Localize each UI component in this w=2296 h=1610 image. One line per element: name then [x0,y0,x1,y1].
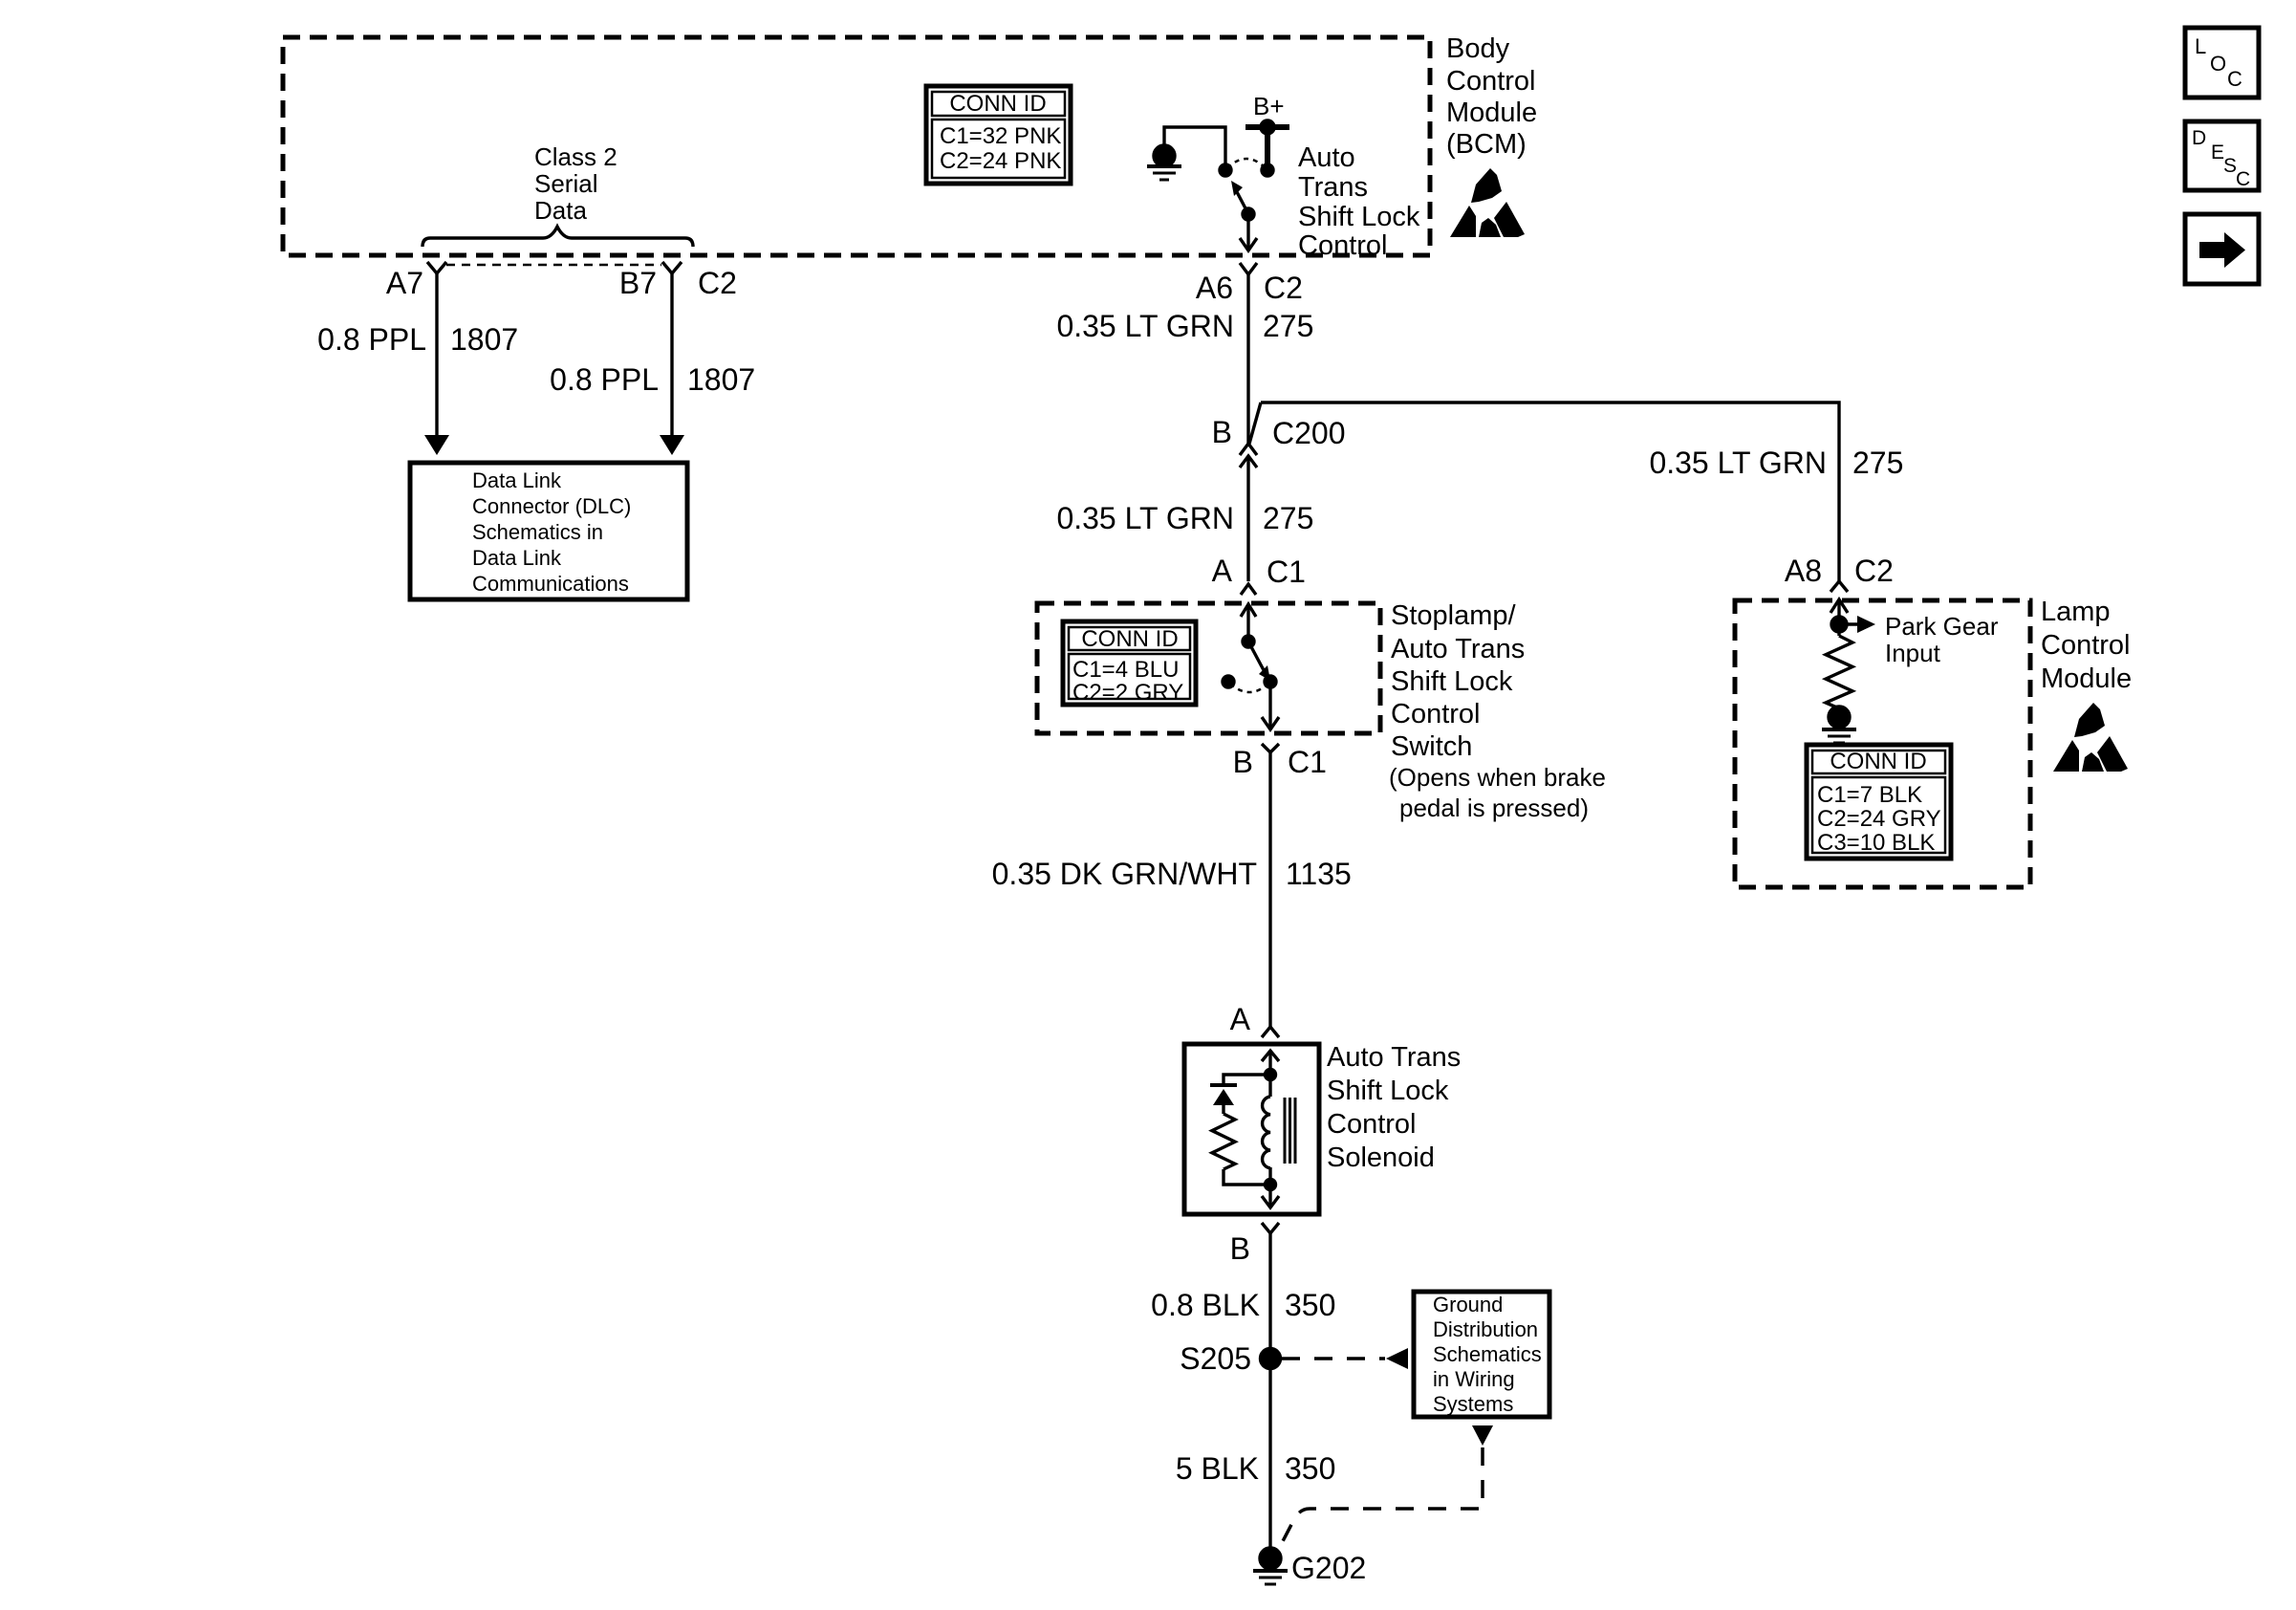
svg-text:O: O [2210,52,2226,76]
svg-text:(Opens when brake: (Opens when brake [1389,763,1606,792]
svg-text:Data Link: Data Link [472,546,562,570]
svg-text:0.35 LT GRN: 0.35 LT GRN [1649,446,1827,480]
svg-text:Ground: Ground [1433,1293,1503,1316]
svg-text:C3=10 BLK: C3=10 BLK [1817,830,1935,856]
label: Auto Trans Shift Lock Control (BCM switch) [1298,142,1420,261]
svg-text:Communications: Communications [472,572,629,596]
svg-text:Schematics: Schematics [1433,1342,1542,1366]
svg-text:1807: 1807 [450,322,518,357]
svg-text:Control: Control [2041,630,2131,661]
svg-text:E: E [2211,141,2224,163]
svg-text:C2=24 GRY: C2=24 GRY [1817,806,1941,832]
Body Control Module (BCM) dashed box [283,37,1430,255]
svg-text:A8: A8 [1785,554,1822,588]
svg-text:A6: A6 [1196,271,1233,305]
resistor (LCM internal) [1826,636,1852,708]
label: Class 2 Serial Data [534,142,617,225]
dashed reference: S205 to Ground Distribution box [1282,1348,1408,1369]
arrow button [2185,214,2259,284]
svg-text:Lamp: Lamp [2041,597,2111,627]
switch: Auto Trans Shift Lock Control (BCM internal) [1220,159,1273,250]
wire 0.8 BLK 350 [1151,1233,1335,1558]
connector A7 (BCM) [386,262,446,300]
ground (LCM internal) [1822,707,1856,743]
connector B7 / C2 (BCM) [619,262,737,300]
svg-text:0.8 PPL: 0.8 PPL [317,322,426,357]
svg-text:Class 2: Class 2 [534,142,617,171]
wire: BCM ground to switch contact [1164,127,1225,164]
svg-text:Control: Control [1446,66,1536,97]
Auto Trans Shift Lock Control Solenoid box [1184,1044,1319,1214]
connector B (below solenoid) [1230,1223,1279,1266]
svg-text:B7: B7 [619,266,657,300]
Lamp Control Module dashed box [1735,600,2030,887]
svg-text:D: D [2192,127,2206,149]
connector A6 / C2 [1196,263,1303,305]
svg-text:Auto Trans: Auto Trans [1391,634,1525,664]
dashed reference: box to G202 [1283,1425,1493,1541]
Data Link Connector (DLC) box [410,463,687,599]
svg-text:0.8 PPL: 0.8 PPL [550,362,659,397]
svg-text:0.35 DK GRN/WHT: 0.35 DK GRN/WHT [992,857,1257,891]
B+ terminal [1245,92,1289,167]
svg-text:C2: C2 [1264,271,1303,305]
svg-text:Shift Lock: Shift Lock [1391,666,1513,697]
svg-text:Shift Lock: Shift Lock [1327,1076,1449,1106]
svg-text:Serial: Serial [534,169,597,198]
svg-text:1135: 1135 [1286,857,1352,891]
LOC button [2185,28,2259,98]
svg-text:S: S [2223,155,2237,177]
brace under Class 2 Serial Data [422,227,693,247]
resistor (solenoid) [1212,1114,1235,1169]
connector A8 / C2 (LCM) [1785,554,1894,636]
svg-text:275: 275 [1263,501,1313,535]
connector A (solenoid) [1230,1002,1279,1037]
Stoplamp switch dashed box [1037,603,1380,733]
svg-text:Data: Data [534,196,587,225]
svg-text:Module: Module [2041,664,2132,694]
svg-text:Connector (DLC): Connector (DLC) [472,494,631,518]
label: Lamp Control Module [2041,597,2132,694]
svg-text:C1=32 PNK: C1=32 PNK [940,123,1061,149]
svg-text:Switch: Switch [1391,731,1472,762]
CONN ID box (LCM) [1807,745,1951,859]
diode (solenoid) [1210,1085,1237,1114]
svg-text:C2: C2 [698,266,737,300]
label: Body Control Module (BCM) [1446,33,1537,160]
svg-text:C1=4 BLU: C1=4 BLU [1072,657,1179,683]
svg-text:Control: Control [1327,1109,1417,1140]
svg-text:C2=24 PNK: C2=24 PNK [940,148,1061,174]
svg-text:0.8 BLK: 0.8 BLK [1151,1288,1260,1322]
Ground Distribution Schematics box [1414,1292,1549,1417]
svg-text:Trans: Trans [1298,172,1368,203]
branch wire 0.35 LT GRN 275 to Lamp Control Module [1261,402,1903,581]
svg-text:B: B [1233,745,1253,779]
svg-text:C1: C1 [1288,745,1327,779]
svg-text:C2=2 GRY: C2=2 GRY [1072,680,1183,706]
svg-text:Body: Body [1446,33,1510,64]
inline connector B / C200 [1212,402,1346,468]
dashed link between A7 and B7 [446,264,661,267]
solenoid internal wiring [1224,1051,1279,1097]
svg-text:Auto: Auto [1298,142,1355,173]
svg-text:Control: Control [1298,230,1388,261]
connector A / C1 (switch) [1212,554,1306,617]
ESD symbol (BCM) [1450,168,1525,237]
wire 0.8 PPL 1807 (B7 to DLC) [550,273,755,455]
label: Stoplamp / Auto Trans Shift Lock Control Switch [1389,600,1606,822]
svg-text:Shift Lock: Shift Lock [1298,202,1420,232]
wire 0.35 DK GRN/WHT 1135 [992,752,1352,1027]
svg-text:B+: B+ [1253,92,1285,120]
ground G202 [1253,1548,1366,1585]
wire 0.35 LT GRN 275 (BCM to C200) [1056,274,1313,444]
splice S205 [1180,1341,1280,1376]
svg-text:Systems: Systems [1433,1392,1513,1416]
svg-text:275: 275 [1852,446,1903,480]
svg-text:C1: C1 [1267,555,1306,589]
svg-text:0.35 LT GRN: 0.35 LT GRN [1056,309,1234,343]
svg-text:S205: S205 [1180,1341,1251,1376]
svg-text:A7: A7 [386,266,423,300]
svg-text:350: 350 [1285,1451,1335,1486]
svg-text:Module: Module [1446,98,1537,128]
switch: stoplamp (internal) [1223,604,1279,729]
ground symbol (BCM internal) [1147,145,1181,180]
connector B / C1 (below switch) [1233,744,1327,779]
svg-text:Distribution: Distribution [1433,1317,1538,1341]
svg-text:Input: Input [1885,639,1941,667]
svg-text:1807: 1807 [687,362,755,397]
svg-text:Auto Trans: Auto Trans [1327,1042,1461,1073]
wire 5 BLK 350 [1176,1451,1336,1486]
svg-text:pedal is pressed): pedal is pressed) [1399,794,1589,822]
DESC button [2185,121,2259,190]
svg-text:A: A [1230,1002,1251,1036]
svg-text:Data Link: Data Link [472,468,562,492]
wire: resistor to coil bottom [1224,1169,1270,1185]
wire 0.35 LT GRN 275 (C200 to switch) [1056,456,1313,581]
svg-text:(BCM): (BCM) [1446,129,1527,160]
svg-text:Control: Control [1391,699,1481,729]
svg-text:C: C [2236,168,2250,190]
svg-text:A: A [1212,554,1233,588]
svg-text:C: C [2227,67,2242,91]
svg-text:in Wiring: in Wiring [1433,1367,1515,1391]
svg-text:Park Gear: Park Gear [1885,612,1999,641]
label: Auto Trans Shift Lock Control Solenoid [1327,1042,1461,1173]
wire 0.8 PPL 1807 (A7 to DLC) [317,273,518,455]
svg-text:C200: C200 [1272,416,1346,450]
svg-text:B: B [1230,1231,1250,1266]
svg-text:Stoplamp/: Stoplamp/ [1391,600,1517,631]
svg-text:350: 350 [1285,1288,1335,1322]
svg-text:CONN ID: CONN ID [949,91,1046,117]
svg-text:275: 275 [1263,309,1313,343]
svg-text:L: L [2195,34,2206,58]
ESD symbol (LCM) [2053,703,2128,772]
svg-text:C2: C2 [1854,554,1894,588]
svg-text:0.35 LT GRN: 0.35 LT GRN [1056,501,1234,535]
svg-text:G202: G202 [1291,1551,1366,1585]
coil (solenoid) [1262,1097,1295,1207]
svg-text:Schematics in: Schematics in [472,520,603,544]
svg-text:5 BLK: 5 BLK [1176,1451,1259,1486]
CONN ID box (switch) [1063,621,1196,706]
svg-text:C1=7 BLK: C1=7 BLK [1817,782,1922,808]
svg-text:B: B [1212,415,1232,449]
svg-text:CONN ID: CONN ID [1830,749,1926,774]
CONN ID box (BCM) [926,86,1071,184]
svg-text:Solenoid: Solenoid [1327,1142,1435,1173]
park gear input arrow [1831,612,1999,667]
svg-text:CONN ID: CONN ID [1081,626,1178,652]
